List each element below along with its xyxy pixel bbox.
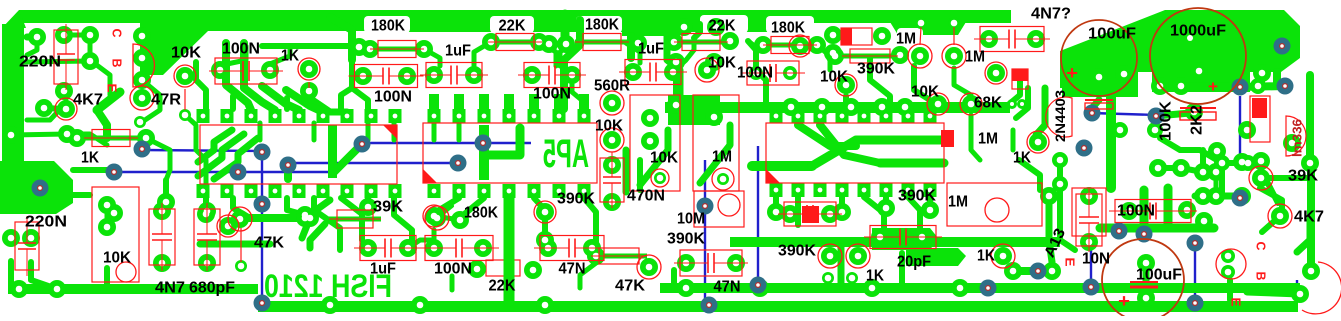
- IC U2 top pin 4: [503, 109, 516, 123]
- IC U2 top pin 7: [578, 109, 591, 123]
- pad: [1115, 65, 1133, 83]
- pad: [1137, 254, 1155, 272]
- pad hole: [902, 104, 909, 111]
- pad: [2, 126, 20, 144]
- pad hole: [670, 69, 677, 76]
- IC U2 bottom pin 5: [528, 184, 541, 198]
- svg-text:10K: 10K: [103, 250, 131, 267]
- svg-text:1uF: 1uF: [638, 41, 664, 58]
- IC U2 top pin 5: [528, 109, 541, 123]
- pad: [300, 60, 318, 78]
- svg-text:220N: 220N: [19, 54, 61, 71]
- pad hole: [367, 46, 374, 53]
- pad hole: [417, 302, 424, 309]
- pad: [962, 95, 980, 113]
- transistor Q outline: [1302, 262, 1341, 314]
- IC U3 bottom pin 3: [814, 183, 827, 197]
- pad hole: [589, 245, 596, 252]
- wire: [580, 263, 596, 288]
- wire: [1156, 113, 1190, 116]
- IC U3 bottom pin 7: [902, 183, 915, 197]
- pad hole: [1033, 36, 1040, 43]
- pad hole: [267, 67, 274, 74]
- pad hole: [1152, 127, 1159, 134]
- corner chamfer: [2, 10, 26, 28]
- resistor network outline: [630, 95, 680, 191]
- pad: [1137, 289, 1155, 307]
- pad: [921, 201, 939, 219]
- wire: [1011, 130, 1016, 150]
- pad ring 180K: [423, 205, 445, 227]
- pad: [1214, 155, 1230, 171]
- pad: [211, 61, 229, 79]
- wire: [330, 17, 352, 60]
- pad hole: [64, 131, 71, 138]
- diode mark: [1012, 69, 1028, 81]
- pad: [705, 108, 723, 126]
- pad hole: [657, 175, 664, 182]
- via: [254, 196, 271, 213]
- pad hole: [307, 215, 314, 222]
- pad hole: [757, 285, 764, 292]
- pour left tail: [1060, 51, 1115, 88]
- pin stub: [479, 94, 489, 110]
- pad: [22, 229, 40, 247]
- pad: [705, 53, 723, 71]
- pad: [721, 32, 739, 50]
- wire: [97, 92, 120, 110]
- resistor 39K wire: [329, 217, 381, 222]
- IC U3 top pin 4 hole: [840, 114, 845, 119]
- capacitor 100N: [1109, 200, 1197, 223]
- pad: [425, 66, 443, 84]
- wire: [227, 46, 246, 64]
- svg-text:2N4403: 2N4403: [1052, 90, 1068, 142]
- pad: [1221, 265, 1235, 279]
- IC U2 bottom pin 1: [428, 184, 441, 198]
- pad ring: [846, 244, 870, 268]
- pad ring: [55, 98, 77, 120]
- via: [1136, 226, 1153, 243]
- diode outline: [1012, 69, 1028, 89]
- svg-text:10K: 10K: [650, 150, 678, 167]
- IC U2 top pin 4 hole: [507, 114, 512, 119]
- pad hole: [1117, 127, 1124, 134]
- IC U3 inner wire: [798, 125, 856, 146]
- pad hole: [1289, 140, 1296, 147]
- pad ring: [651, 169, 669, 187]
- pad: [987, 64, 1005, 82]
- wire: [24, 61, 90, 62]
- wire: [228, 219, 240, 226]
- IC U1 inner wire: [198, 130, 232, 162]
- pad: [821, 205, 839, 223]
- capacitor 220N: [54, 24, 78, 90]
- IC U2 bottom pin 1 hole: [432, 189, 437, 194]
- polarity mark: [1252, 98, 1267, 118]
- wire: [314, 210, 340, 250]
- pad: [153, 254, 171, 272]
- svg-text:B: B: [1254, 272, 1269, 281]
- pad hole: [1200, 169, 1207, 176]
- wire: [233, 198, 250, 218]
- pad hole: [827, 211, 834, 218]
- IC U3 top pin 3: [814, 109, 827, 123]
- pad: [359, 239, 377, 257]
- svg-text:390K: 390K: [898, 188, 936, 205]
- wire: [1261, 175, 1311, 181]
- transistor outline: [947, 183, 1042, 226]
- svg-text:47K: 47K: [615, 278, 645, 295]
- pad hole: [204, 260, 211, 267]
- svg-text:180K: 180K: [771, 20, 805, 37]
- pad hole: [139, 95, 146, 102]
- pad hole: [302, 212, 309, 219]
- svg-text:4N7: 4N7: [155, 280, 185, 297]
- wire: [312, 123, 317, 140]
- IC U2 bottom pin 3 hole: [482, 189, 487, 194]
- pad hole: [1219, 160, 1226, 167]
- wire: [424, 49, 440, 66]
- wire: [1297, 220, 1310, 252]
- pad: [1208, 142, 1226, 160]
- capacitor 100N: [741, 61, 805, 85]
- pad ring: [712, 168, 734, 190]
- pad hole: [935, 101, 942, 108]
- pad hole: [1020, 102, 1024, 106]
- IC U1 bottom pin 8: [365, 184, 378, 198]
- pad ring: [960, 93, 982, 115]
- svg-text:E: E: [1229, 298, 1244, 307]
- pad: [1027, 30, 1045, 48]
- capacitor 1uF: [354, 236, 422, 261]
- pad: [665, 33, 683, 51]
- pad: [296, 206, 314, 224]
- transistor Q1 pin E: [133, 71, 151, 89]
- svg-text:1M: 1M: [948, 194, 968, 211]
- pad: [824, 26, 842, 44]
- resistor 180K: [575, 34, 629, 51]
- via: [1083, 279, 1100, 296]
- svg-text:B: B: [110, 59, 125, 68]
- pad hole: [61, 32, 68, 39]
- pad hole: [760, 42, 767, 49]
- wire: [839, 197, 845, 210]
- pad: [359, 198, 377, 216]
- pour tongue under 100uF: [1062, 72, 1138, 97]
- via: [1277, 78, 1294, 95]
- pad hole: [356, 44, 363, 51]
- pad hole: [421, 46, 428, 53]
- wire: [626, 43, 640, 63]
- lead: [240, 228, 242, 262]
- capacitor 1000uF plates: [1180, 108, 1216, 120]
- pad hole: [1307, 160, 1314, 167]
- pad hole: [529, 72, 536, 79]
- svg-text:10K: 10K: [171, 45, 201, 62]
- pad: [863, 279, 881, 297]
- pad: [399, 239, 417, 257]
- pad: [134, 116, 146, 128]
- pad: [677, 254, 695, 272]
- pad: [1112, 122, 1128, 138]
- top rail chunk: [622, 10, 680, 36]
- label pocket: [490, 16, 534, 33]
- pad hole: [788, 104, 795, 111]
- wire: [230, 96, 236, 109]
- svg-text:4K7: 4K7: [73, 92, 103, 109]
- wire: [434, 198, 459, 216]
- pad hole: [843, 82, 850, 89]
- IC U1 top pin 8: [365, 109, 378, 123]
- pad: [754, 36, 772, 54]
- pad: [640, 258, 658, 276]
- svg-text:180K: 180K: [371, 18, 405, 35]
- IC U3 bottom pin 2 hole: [796, 188, 801, 193]
- wire: [309, 91, 330, 112]
- pad hole: [238, 263, 245, 270]
- wire: [97, 110, 107, 138]
- pad: [415, 40, 433, 58]
- IC U1 top pin 8 hole: [369, 114, 374, 119]
- pad: [641, 132, 659, 150]
- pad hole: [1201, 218, 1208, 225]
- transistor Q1 pin E hole: [139, 77, 146, 84]
- pad: [425, 239, 443, 257]
- capacitor 100uF plates: [1130, 282, 1158, 287]
- svg-text:1uF: 1uF: [445, 43, 471, 60]
- capacitor 100N: [209, 58, 283, 84]
- IC U3 inner wire: [812, 140, 944, 166]
- pad hole: [1178, 165, 1185, 172]
- bottom wire: [1194, 243, 1196, 303]
- svg-text:1K: 1K: [977, 248, 995, 265]
- pad: [536, 296, 554, 314]
- bottom wire: [142, 150, 262, 151]
- wire: [240, 214, 305, 222]
- pad: [641, 109, 659, 127]
- capacitor: [778, 202, 842, 226]
- pad hole: [897, 52, 904, 59]
- svg-text:47N: 47N: [559, 261, 586, 278]
- pad hole: [431, 213, 438, 220]
- wire: [27, 105, 64, 120]
- pad: [536, 231, 554, 249]
- IC U2 bottom pin 7 hole: [582, 189, 587, 194]
- pad hole: [832, 53, 839, 60]
- svg-text:100uF: 100uF: [1088, 26, 1136, 43]
- pad: [10, 280, 28, 298]
- pad ring 39K: [1249, 166, 1273, 190]
- capacitor 10N: [1076, 188, 1102, 252]
- pad: [791, 37, 809, 55]
- pad ring: [637, 255, 661, 279]
- svg-text:68K: 68K: [974, 95, 1002, 112]
- pad: [1238, 121, 1256, 139]
- via: [1030, 263, 1047, 280]
- svg-text:E: E: [105, 84, 120, 93]
- pad: [179, 109, 191, 121]
- pad: [1207, 163, 1225, 181]
- IC U3 top pin 1 hole: [774, 114, 779, 119]
- wire: [31, 262, 57, 289]
- pad hole: [968, 101, 975, 108]
- pad hole: [630, 69, 637, 76]
- pad: [451, 211, 469, 229]
- wire: [90, 35, 110, 95]
- pad hole: [1245, 160, 1252, 167]
- wire: [1214, 172, 1219, 196]
- pad: [873, 27, 891, 45]
- IC U1 bottom pin 5 hole: [297, 189, 302, 194]
- via: [1076, 140, 1093, 157]
- pad: [1194, 187, 1212, 205]
- pad hole: [849, 275, 856, 282]
- bottom wire: [288, 162, 459, 164]
- pad ring: [985, 198, 1009, 222]
- pad hole: [1126, 208, 1133, 215]
- pad hole: [306, 66, 313, 73]
- svg-text:100N: 100N: [737, 65, 773, 82]
- via: [354, 136, 371, 153]
- resistor 390K: [842, 49, 898, 63]
- pad: [951, 279, 969, 297]
- svg-text:100N: 100N: [1117, 203, 1155, 220]
- svg-text:100N: 100N: [222, 41, 260, 58]
- IC U3 bottom pin 6: [880, 183, 893, 197]
- IC U1 bottom pin 9 hole: [393, 189, 398, 194]
- capacitor 100uF outline: [1102, 239, 1184, 321]
- pad: [198, 254, 216, 272]
- pad: [603, 94, 621, 112]
- wire: [457, 123, 462, 140]
- wire: [27, 34, 37, 41]
- pad ring: [600, 128, 624, 152]
- svg-text:100N: 100N: [533, 86, 571, 103]
- wire: [284, 98, 290, 109]
- pad: [783, 66, 797, 80]
- wire: [200, 241, 270, 248]
- pad: [1090, 68, 1108, 86]
- pad: [837, 76, 855, 94]
- wire: [73, 170, 114, 172]
- pad hole: [217, 67, 224, 74]
- IC U3 top pin 3 hole: [818, 114, 823, 119]
- pad: [1283, 134, 1301, 152]
- pad: [428, 209, 446, 227]
- pad: [1250, 78, 1266, 94]
- bottom wire: [1090, 235, 1092, 287]
- wire: [673, 41, 694, 72]
- pad hole: [609, 199, 616, 206]
- pad hole: [1057, 181, 1064, 188]
- pad hole: [951, 53, 958, 60]
- pad hole: [869, 285, 876, 292]
- pad hole: [646, 264, 653, 271]
- pad: [231, 210, 249, 228]
- IC U2 bottom pin 3: [478, 184, 491, 198]
- capacitor 100N: [518, 63, 586, 88]
- label pocket: [637, 38, 673, 58]
- svg-text:100K: 100K: [1158, 101, 1175, 141]
- wire: [748, 41, 763, 50]
- svg-text:100N: 100N: [434, 261, 472, 278]
- pad hole: [918, 20, 925, 27]
- wire: [667, 24, 680, 95]
- pad: [530, 33, 548, 51]
- pad hole: [917, 53, 924, 60]
- pad hole on pour: [1187, 35, 1193, 41]
- capacitor 100N: [349, 65, 424, 88]
- svg-text:470N: 470N: [627, 188, 665, 205]
- pad hole: [327, 302, 334, 309]
- top rail right thick: [370, 10, 782, 32]
- pad: [1233, 153, 1251, 171]
- pad: [1172, 159, 1190, 177]
- pad hole: [1258, 175, 1265, 182]
- wire: [971, 115, 980, 160]
- pad: [1240, 155, 1256, 171]
- wire: [954, 68, 971, 95]
- IC U2 top pin 6 hole: [557, 114, 562, 119]
- capacitor 100N: [419, 236, 499, 261]
- pad: [1252, 152, 1270, 170]
- pad: [153, 202, 171, 220]
- IC U1 top pin 1 hole: [201, 114, 206, 119]
- pad: [523, 66, 541, 84]
- pad: [842, 98, 860, 116]
- polarity mark: [941, 130, 954, 147]
- pad hole: [1244, 127, 1251, 134]
- pad: [767, 203, 785, 221]
- IC U3 top pin 7: [902, 109, 915, 123]
- wire: [1261, 170, 1278, 203]
- pad: [35, 99, 53, 117]
- IC U2 top pin 1 hole: [432, 114, 437, 119]
- pad ring 390K: [534, 201, 556, 223]
- pad hole: [104, 224, 111, 231]
- pad ring: [425, 206, 449, 230]
- pad ring: [116, 262, 136, 282]
- svg-text:1M: 1M: [896, 31, 916, 48]
- lead: [308, 82, 310, 88]
- pad: [350, 38, 368, 56]
- pad ring: [985, 62, 1007, 84]
- pad: [398, 67, 416, 85]
- pad: [896, 98, 914, 116]
- wire: [623, 150, 630, 192]
- IC U2 bottom pin 6 hole: [557, 189, 562, 194]
- pad hole: [673, 102, 680, 109]
- pad: [871, 228, 889, 246]
- wire: [310, 224, 325, 248]
- svg-text:22K: 22K: [489, 278, 516, 295]
- pad hole: [431, 72, 438, 79]
- pad: [1194, 163, 1212, 181]
- via: [1232, 190, 1249, 207]
- wire: [305, 200, 330, 218]
- capacitor 47N: [674, 250, 748, 276]
- pad hole: [720, 176, 727, 183]
- pad: [782, 98, 800, 116]
- pad: [603, 131, 621, 149]
- IC U1 bottom pin 7: [341, 184, 354, 198]
- IC U1 bottom pin 4: [269, 184, 282, 198]
- pad hole: [773, 209, 780, 216]
- pad hole: [609, 100, 616, 107]
- pad: [929, 95, 947, 113]
- pad hole: [879, 104, 886, 111]
